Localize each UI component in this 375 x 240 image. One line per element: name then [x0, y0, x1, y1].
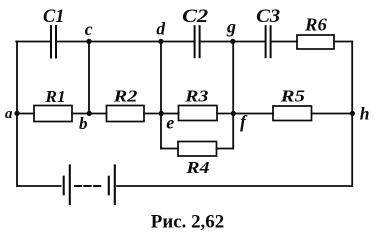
- svg-text:h: h: [360, 103, 370, 123]
- wire top segment C2 to C3: [200, 41, 264, 43]
- wire bottom segment battery to right corner: [117, 185, 352, 187]
- node e: [159, 111, 164, 116]
- wire vertical d to e to R4 branch: [160, 42, 162, 149]
- node g: [230, 39, 235, 44]
- label R5: [280, 87, 305, 106]
- svg-text:g: g: [226, 17, 236, 37]
- wire middle segment a to R1: [16, 113, 34, 115]
- label C3: [256, 7, 280, 27]
- wire bottom segment left to battery: [17, 185, 61, 187]
- svg-text:Рис. 2,62: Рис. 2,62: [151, 212, 224, 233]
- node c: [86, 39, 91, 44]
- svg-text:R5: R5: [280, 87, 305, 106]
- svg-text:f: f: [240, 112, 248, 132]
- capacitor C3: [266, 26, 271, 57]
- label h: [360, 103, 370, 123]
- resistor R2: [107, 106, 145, 122]
- wire vertical c to b: [88, 42, 90, 114]
- label R3: [184, 87, 208, 106]
- label R2: [113, 87, 138, 106]
- svg-text:C2: C2: [182, 7, 208, 27]
- label e: [166, 113, 174, 133]
- node d: [158, 39, 163, 44]
- svg-text:c: c: [85, 19, 93, 39]
- svg-text:b: b: [79, 114, 88, 133]
- capacitor C1: [51, 26, 56, 58]
- wire vertical g to f to R4 branch: [232, 42, 234, 149]
- label c: [85, 19, 93, 39]
- label R4: [185, 158, 210, 177]
- wire left vertical a-column: [16, 42, 18, 187]
- wire top segment C3 to R6: [271, 41, 297, 43]
- resistor R4: [178, 142, 217, 157]
- wire middle segment R2 to R3: [144, 113, 179, 115]
- node a: [14, 111, 19, 116]
- wire right vertical h-column: [351, 42, 353, 187]
- resistor R3: [179, 106, 218, 121]
- label f: [240, 112, 248, 132]
- wire middle segment R3 to R5: [217, 113, 273, 115]
- svg-text:R3: R3: [184, 87, 208, 106]
- resistor R1: [34, 106, 72, 122]
- label C2: [182, 7, 208, 27]
- label b: [79, 114, 88, 133]
- svg-text:C3: C3: [256, 7, 280, 27]
- node f: [231, 111, 236, 116]
- caption Рис. 2.62: [151, 212, 224, 233]
- node b: [87, 111, 92, 116]
- battery cell 1: [64, 165, 70, 204]
- label d: [156, 18, 165, 38]
- wire R4 branch right to f: [217, 148, 234, 150]
- label R1: [44, 87, 65, 106]
- svg-text:C1: C1: [43, 7, 64, 27]
- label a: [5, 106, 13, 122]
- battery cell 2: [109, 165, 115, 204]
- label g: [226, 17, 236, 37]
- wire middle segment R5 to h: [312, 113, 353, 115]
- wire middle segment R1 to R2: [72, 113, 107, 115]
- svg-text:d: d: [156, 18, 165, 38]
- svg-text:R6: R6: [304, 14, 327, 34]
- resistor R5: [273, 106, 312, 121]
- svg-text:a: a: [5, 106, 13, 122]
- capacitor C2: [195, 26, 200, 57]
- label C1: [43, 7, 64, 27]
- wire top segment left to C1: [16, 41, 50, 43]
- svg-text:R4: R4: [185, 158, 210, 177]
- node h: [350, 111, 355, 116]
- wire R4 branch left from e: [161, 148, 178, 150]
- battery dashed omitted cells: [75, 185, 100, 187]
- resistor R6: [297, 35, 334, 49]
- wire top segment R6 to right corner: [334, 41, 352, 43]
- svg-text:R1: R1: [44, 87, 65, 106]
- svg-text:R2: R2: [113, 87, 138, 106]
- svg-text:e: e: [166, 113, 174, 133]
- label R6: [304, 14, 327, 34]
- wire top segment C1 to C2: [57, 41, 194, 43]
